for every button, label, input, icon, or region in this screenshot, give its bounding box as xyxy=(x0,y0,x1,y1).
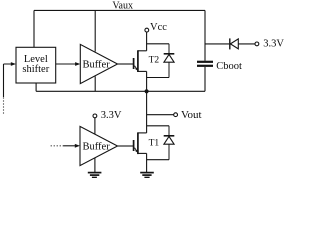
wire T2 source jog xyxy=(138,70,147,72)
op-amp buffer top xyxy=(80,44,117,83)
wire Vaux top rail xyxy=(34,9,205,11)
wire Vcc to T2 drain xyxy=(146,32,148,51)
svg-text:Vcc: Vcc xyxy=(150,22,167,33)
diode D1 bootstrap xyxy=(230,38,239,49)
wire node down to T1 drain xyxy=(146,91,148,133)
wire rail to level shifter top xyxy=(33,10,35,47)
terminal 3.3V top right xyxy=(255,42,259,46)
svg-text:T1: T1 xyxy=(149,139,160,149)
wire diode D1 to 3.3V terminal xyxy=(238,43,255,45)
svg-text:Vaux: Vaux xyxy=(112,0,133,11)
terminal Vout xyxy=(174,113,178,117)
wire T2 drain jog xyxy=(138,50,147,52)
wire T2 body diode bottom xyxy=(147,77,169,79)
wire T1 drain jog xyxy=(138,132,147,134)
wire Cboot bottom to switch node xyxy=(204,67,206,91)
wire level shifter bottom to switch node xyxy=(35,83,37,91)
terminal Vcc xyxy=(145,28,149,32)
wire input to level shifter xyxy=(4,64,13,97)
ground below bottom buffer xyxy=(88,173,102,178)
wire T1 body diode bottom xyxy=(147,159,169,161)
wire T1 drain rail to diode xyxy=(147,125,169,127)
wire rail to Cboot top xyxy=(204,10,206,60)
transistor T2 xyxy=(134,50,138,72)
wire dotted input to bottom buffer xyxy=(51,145,64,147)
wire T1 source to ground xyxy=(146,153,148,172)
wire buffer output to T2 gate xyxy=(118,63,134,65)
wire switch node line xyxy=(36,90,205,92)
wire dotted input continuation xyxy=(3,98,5,116)
level shifter box xyxy=(16,47,56,83)
wire bottom buffer output to T1 gate xyxy=(118,145,134,147)
arrowhead input to level shifter xyxy=(11,62,16,66)
svg-text:Buffer: Buffer xyxy=(83,59,111,70)
op-amp buffer bottom xyxy=(80,126,118,165)
wire input arrow line bottom buffer xyxy=(63,145,76,147)
wire diode D1 from Vaux xyxy=(205,43,229,45)
capacitor Cboot xyxy=(197,62,213,66)
wire bottom buffer to ground xyxy=(94,158,96,172)
transistor T1 xyxy=(134,132,138,154)
wire level shifter to buffer xyxy=(56,63,76,65)
svg-text:3.3V: 3.3V xyxy=(263,39,284,50)
svg-text:Buffer: Buffer xyxy=(83,141,111,152)
arrowhead level shifter to buffer xyxy=(75,62,80,66)
wire buffer negative supply to switch node xyxy=(94,76,96,91)
wire node to Vout xyxy=(147,114,174,116)
arrowhead input to bottom buffer xyxy=(75,144,80,148)
svg-text:T2: T2 xyxy=(149,55,160,65)
wire rail to top buffer positive supply xyxy=(94,10,96,51)
wire T1 source jog xyxy=(138,152,147,154)
svg-text:shifter: shifter xyxy=(22,64,49,75)
wire T2 source down to node xyxy=(146,71,148,91)
svg-text:3.3V: 3.3V xyxy=(101,110,122,121)
node switch junction dot xyxy=(145,89,149,93)
svg-text:Cboot: Cboot xyxy=(216,61,242,72)
wire 3.3V to bottom buffer supply xyxy=(94,118,96,134)
ground below T1 xyxy=(140,173,154,178)
terminal 3.3V bottom buffer xyxy=(93,114,97,118)
svg-text:Vout: Vout xyxy=(181,109,202,121)
wire T2 drain rail to diode xyxy=(147,43,169,45)
diode T1 body xyxy=(164,126,175,160)
diode T2 body xyxy=(164,44,175,78)
